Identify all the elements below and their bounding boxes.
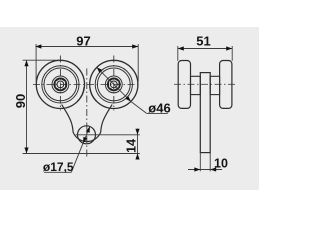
dimension ø17,5: diameter line across hole (83, 127, 90, 144)
dimension ø46: diameter line across right wheel (97, 67, 131, 101)
left wheel bearing ring outer (42, 66, 79, 103)
svg-text:ø46: ø46 (148, 101, 170, 116)
left wheel hub circle (54, 78, 66, 90)
dimension 90: bottom arrow (24, 148, 28, 154)
left wheel bearing ring inner (44, 68, 77, 101)
bracket edge arc in gap, right (90, 87, 97, 101)
svg-text:51: 51 (196, 33, 210, 48)
left wheel hub hexagon (55, 78, 66, 90)
wire: central vertical center line through bracket hole (86, 69, 88, 158)
dimension 10: left arrow (pointing right) (194, 167, 200, 171)
dimension 10: left extension line (199, 153, 201, 172)
side left wheel profile (178, 61, 190, 109)
dimension 90: dim line (26, 60, 28, 153)
dimension 97: left extension line (35, 44, 37, 82)
dimension 10: right arrow (pointing left) (210, 167, 216, 171)
right hub spacer (210, 76, 219, 94)
side right wheel profile (220, 61, 232, 109)
wire: vertical center line left wheel (59, 56, 61, 111)
dimension 90: top arrow (24, 60, 28, 66)
dimension 97: right extension line (137, 44, 139, 82)
center plate bar (200, 73, 210, 153)
bracket hole ø17.5 (78, 126, 96, 144)
dimension ø46: lower-right arrow (125, 96, 132, 103)
dimension 90: bottom extension line (shared with dim 14) (23, 153, 140, 155)
dimension 10: dim line (188, 169, 222, 171)
right wheel hub hexagon (108, 78, 119, 90)
dimension ø46: leader bend (131, 102, 147, 114)
bracket outline (62, 105, 112, 142)
dimension 14: dim line (137, 129, 139, 160)
left hub spacer (191, 76, 201, 94)
right wheel bearing ring inner (97, 68, 130, 101)
left wheel outer tire (36, 60, 84, 108)
dimension ø17,5: leader underline (44, 171, 71, 173)
wire: vertical center line right wheel (113, 56, 115, 111)
left wheel washer (52, 76, 69, 93)
right wheel outer tire (90, 60, 138, 108)
dimension 14: bottom arrow (outside, pointing up) (135, 154, 139, 160)
dimension ø46: leader underline (147, 112, 168, 114)
svg-text:10: 10 (214, 157, 228, 171)
dimension 14: top extension line through hole center (76, 134, 140, 136)
svg-text:97: 97 (76, 34, 90, 49)
svg-text:90: 90 (13, 94, 28, 108)
dimension ø17,5: lower arrow (81, 137, 87, 144)
dimension 97: dim line (35, 46, 138, 48)
dimension 90: top extension line (23, 59, 61, 61)
dimension 97: right arrow (132, 44, 138, 48)
dimension 51: left arrow (178, 46, 184, 50)
right wheel bearing ring outer (95, 66, 132, 103)
wire: side view horizontal center line (174, 83, 237, 85)
left wheel axle hole (57, 81, 64, 88)
bracket edge arc in gap, left (77, 87, 84, 101)
svg-text:ø17,5: ø17,5 (43, 160, 74, 174)
dimension 51: right extension line (231, 46, 233, 61)
dimension 97: left arrow (35, 44, 41, 48)
dimension ø17,5: upper arrow (86, 126, 92, 133)
dimension 51: right arrow (226, 46, 232, 50)
dimension ø17,5: leader diagonal (71, 143, 83, 172)
right wheel axle hole (110, 81, 117, 88)
dimension ø46: upper-left arrow (95, 66, 102, 73)
dimension 51: dim line (178, 48, 232, 50)
svg-text:14: 14 (125, 139, 139, 153)
page background (0, 0, 259, 214)
drawing panel background (0, 27, 259, 190)
dimension 10: right extension line (209, 153, 211, 172)
wire: horizontal center line through both wheels (33, 83, 141, 85)
right wheel hub circle (108, 78, 120, 90)
dimension 14: top arrow (outside, pointing down) (135, 129, 139, 135)
right wheel washer (105, 76, 122, 93)
dimension 51: left extension line (177, 46, 179, 61)
